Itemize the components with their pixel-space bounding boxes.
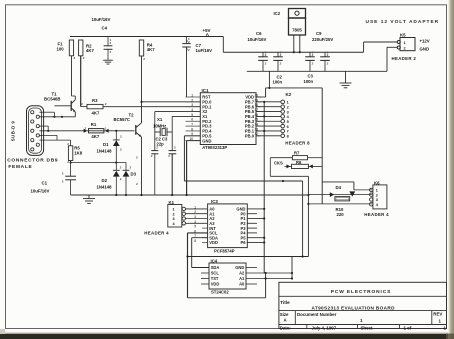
svg-text:5: 5	[194, 225, 196, 229]
svg-text:A2: A2	[239, 271, 245, 276]
svg-text:2: 2	[136, 182, 138, 186]
svg-text:HEADER 4: HEADER 4	[364, 212, 389, 217]
svg-text:220: 220	[337, 212, 345, 217]
svg-text:1: 1	[191, 93, 193, 97]
svg-text:7805: 7805	[292, 28, 302, 33]
svg-text:4: 4	[191, 108, 193, 112]
svg-text:PCF8574P: PCF8574P	[214, 248, 235, 253]
svg-text:C1: C1	[42, 181, 48, 186]
svg-text:A1: A1	[239, 276, 245, 281]
svg-text:2: 2	[194, 210, 196, 214]
svg-text:1: 1	[105, 127, 107, 131]
svg-text:100: 100	[57, 46, 65, 51]
svg-text:FEMALE: FEMALE	[8, 164, 32, 170]
svg-text:2: 2	[327, 62, 329, 66]
svg-text:A0: A0	[239, 282, 245, 287]
svg-text:CKS: CKS	[274, 160, 283, 165]
svg-text:2: 2	[120, 165, 122, 169]
svg-text:P6: P6	[240, 240, 246, 245]
svg-text:Sheet: Sheet	[361, 325, 373, 330]
svg-text:10MHz: 10MHz	[153, 123, 166, 128]
svg-text:C9: C9	[316, 31, 322, 36]
svg-text:2: 2	[287, 105, 289, 109]
svg-text:1: 1	[312, 51, 314, 55]
svg-text:10uF/16V: 10uF/16V	[248, 37, 267, 42]
svg-text:BC546B: BC546B	[44, 96, 60, 101]
svg-text:HEADER 8: HEADER 8	[285, 141, 310, 146]
svg-text:D3: D3	[131, 172, 137, 177]
svg-text:1: 1	[404, 41, 406, 45]
svg-text:10uF/16V: 10uF/16V	[31, 188, 50, 193]
svg-text:C4: C4	[102, 25, 108, 30]
svg-text:2: 2	[312, 62, 314, 66]
svg-text:2: 2	[376, 193, 378, 197]
svg-text:USE 12 VOLT ADAPTER: USE 12 VOLT ADAPTER	[366, 19, 440, 25]
svg-text:1: 1	[110, 38, 112, 42]
svg-text:2: 2	[186, 48, 188, 52]
svg-text:100n: 100n	[304, 79, 314, 84]
svg-text:1K8: 1K8	[74, 151, 82, 156]
svg-text:1 of: 1 of	[404, 325, 412, 330]
svg-text:AT90S2313P: AT90S2313P	[202, 145, 227, 150]
svg-text:July 4, 1997: July 4, 1997	[312, 325, 337, 330]
svg-text:3: 3	[287, 110, 289, 114]
svg-text:C3: C3	[308, 73, 314, 78]
svg-text:SCL: SCL	[211, 271, 220, 276]
svg-text:1uF/16V: 1uF/16V	[196, 48, 213, 53]
svg-text:8: 8	[191, 127, 193, 131]
svg-text:VDD: VDD	[209, 240, 218, 245]
svg-text:GND: GND	[420, 46, 430, 51]
svg-text:2: 2	[265, 62, 267, 66]
svg-text:1: 1	[173, 208, 175, 212]
svg-text:3: 3	[194, 215, 196, 219]
svg-text:X1: X1	[157, 117, 163, 122]
svg-text:K5: K5	[400, 32, 406, 37]
svg-text:+5V: +5V	[203, 28, 211, 33]
svg-text:4K7: 4K7	[86, 48, 94, 53]
svg-text:100n: 100n	[273, 80, 283, 85]
svg-text:IC2: IC2	[274, 11, 281, 16]
svg-text:REV: REV	[433, 311, 442, 316]
svg-text:R3: R3	[92, 98, 98, 103]
svg-text:HEADER 4: HEADER 4	[144, 230, 169, 235]
svg-text:8: 8	[194, 239, 196, 243]
svg-text:TST: TST	[211, 276, 219, 281]
svg-text:1N4148: 1N4148	[97, 184, 113, 189]
svg-text:1: 1	[287, 101, 289, 105]
svg-text:R1: R1	[91, 122, 97, 127]
svg-text:2: 2	[120, 134, 122, 138]
svg-text:1: 1	[327, 51, 329, 55]
svg-text:GND: GND	[235, 265, 244, 270]
svg-text:8: 8	[287, 135, 289, 139]
svg-text:AT90S2313 EVALUATION BOARD: AT90S2313 EVALUATION BOARD	[312, 305, 396, 310]
svg-text:2: 2	[67, 142, 69, 146]
svg-text:2: 2	[120, 148, 122, 152]
svg-text:2: 2	[143, 57, 145, 61]
svg-text:GND: GND	[202, 138, 211, 143]
svg-text:VDD: VDD	[211, 282, 220, 287]
svg-text:K2: K2	[286, 92, 292, 97]
svg-text:1: 1	[376, 189, 378, 193]
svg-text:6: 6	[191, 118, 193, 122]
svg-text:220uF/25V: 220uF/25V	[312, 37, 333, 42]
svg-text:2: 2	[174, 146, 176, 150]
svg-text:2: 2	[404, 46, 406, 50]
svg-text:PCW ELECTRONICS: PCW ELECTRONICS	[331, 289, 391, 295]
svg-text:6: 6	[287, 125, 289, 129]
svg-text:Size: Size	[280, 312, 289, 317]
svg-text:3: 3	[376, 198, 378, 202]
svg-text:5: 5	[287, 120, 289, 124]
svg-text:2: 2	[83, 56, 85, 60]
svg-text:2: 2	[85, 127, 87, 131]
svg-text:Document Number: Document Number	[297, 312, 337, 317]
svg-text:2: 2	[110, 50, 112, 54]
svg-text:Title: Title	[280, 300, 290, 305]
svg-text:2: 2	[168, 154, 170, 158]
svg-text:2: 2	[74, 56, 76, 60]
svg-text:10uF/16V: 10uF/16V	[92, 17, 111, 22]
svg-text:+12V: +12V	[420, 38, 430, 43]
svg-text:R7: R7	[294, 150, 300, 155]
svg-text:4: 4	[194, 220, 196, 224]
svg-text:4K7: 4K7	[91, 134, 99, 139]
svg-text:1: 1	[188, 37, 190, 41]
svg-text:2: 2	[191, 98, 193, 102]
svg-text:D2: D2	[102, 178, 108, 183]
svg-text:C2: C2	[277, 74, 283, 79]
svg-text:2: 2	[105, 102, 107, 106]
svg-text:7: 7	[191, 123, 193, 127]
svg-text:2: 2	[151, 154, 153, 158]
svg-text:4K7: 4K7	[147, 47, 155, 52]
svg-text:C6: C6	[256, 31, 262, 36]
svg-text:3: 3	[191, 103, 193, 107]
svg-text:ST24C02: ST24C02	[211, 290, 229, 295]
svg-text:7: 7	[287, 130, 289, 134]
svg-text:2: 2	[62, 172, 64, 176]
svg-text:2: 2	[188, 48, 190, 52]
svg-text:1N4148: 1N4148	[97, 148, 113, 153]
svg-text:3: 3	[173, 217, 175, 221]
svg-text:SDA: SDA	[211, 265, 220, 270]
svg-text:1: 1	[280, 51, 282, 55]
svg-text:2: 2	[81, 102, 83, 106]
svg-text:4K7: 4K7	[92, 110, 100, 115]
svg-text:PB.0: PB.0	[245, 133, 255, 138]
svg-text:2: 2	[173, 212, 175, 216]
svg-text:SUB-D 9: SUB-D 9	[11, 121, 16, 142]
svg-text:D1: D1	[103, 142, 109, 147]
svg-text:CONNECTOR DB9: CONNECTOR DB9	[7, 158, 58, 164]
svg-text:2: 2	[156, 146, 158, 150]
svg-text:2: 2	[130, 165, 132, 169]
svg-text:2: 2	[280, 62, 282, 66]
svg-text:1: 1	[194, 205, 196, 209]
svg-text:BC557C: BC557C	[114, 117, 130, 122]
svg-text:1: 1	[265, 51, 267, 55]
svg-text:2: 2	[67, 160, 69, 164]
svg-text:2: 2	[62, 180, 64, 184]
svg-text:Date:: Date:	[280, 325, 292, 330]
svg-text:D4: D4	[336, 185, 342, 190]
svg-text:2: 2	[120, 177, 122, 181]
svg-text:IC1: IC1	[202, 88, 210, 93]
svg-text:HEADER 2: HEADER 2	[392, 56, 417, 61]
svg-text:2: 2	[136, 156, 138, 160]
svg-text:5: 5	[191, 113, 193, 117]
